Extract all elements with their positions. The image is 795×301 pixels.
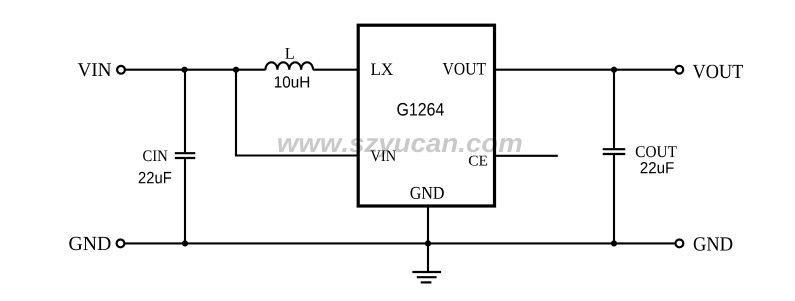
node junction VIN/CIN <box>181 67 187 73</box>
inductor L coil <box>266 62 314 69</box>
inductor label L <box>285 48 294 59</box>
pin label CE <box>469 156 487 166</box>
watermark www.szyucan.com <box>278 138 522 157</box>
node junction CIN/GND rail <box>182 240 188 246</box>
wire CIN lower segment <box>184 159 186 244</box>
capacitor COUT plates <box>603 148 626 150</box>
label GND terminal right <box>694 237 733 250</box>
node junction IC GND/rail <box>425 240 431 246</box>
capacitor CIN plates <box>175 152 196 154</box>
wire COUT upper segment <box>613 70 615 149</box>
wire IC GND pin down to ground <box>427 206 429 272</box>
wire CIN upper segment <box>184 70 186 153</box>
label VOUT terminal <box>693 65 743 79</box>
wire inductor to IC LX pin <box>313 69 358 71</box>
capacitor CIN label <box>143 150 167 161</box>
wire COUT lower segment <box>613 155 615 244</box>
inductor value 10uH <box>275 76 309 87</box>
terminal VIN <box>117 66 125 74</box>
IC U1 G1264 box <box>358 25 494 206</box>
terminal GND left <box>117 240 125 248</box>
capacitor CIN value 22uF <box>139 172 172 184</box>
capacitor COUT value 22uF <box>641 162 674 173</box>
pin label GND <box>411 187 444 199</box>
pin label VIN <box>371 151 396 162</box>
label GND terminal left <box>69 237 110 250</box>
label VIN terminal <box>78 63 111 76</box>
node junction VOUT/COUT <box>611 67 617 73</box>
ground symbol <box>412 271 441 273</box>
wire IC VOUT pin to VOUT terminal <box>495 69 676 71</box>
pin label LX <box>371 64 393 76</box>
node junction VIN feed <box>233 67 239 73</box>
IC part number G1264 <box>397 103 444 116</box>
wire VIN feed to IC VIN pin <box>235 154 358 156</box>
capacitor COUT label <box>636 146 677 157</box>
wire CE stub <box>495 155 558 157</box>
node junction COUT/GND rail <box>611 240 617 246</box>
pin label VOUT <box>443 63 486 75</box>
wire VIN terminal to inductor <box>124 69 266 71</box>
terminal GND right <box>676 240 684 248</box>
terminal VOUT <box>675 66 683 74</box>
wire VIN feed down <box>235 70 237 156</box>
wire bottom GND rail <box>125 242 676 244</box>
